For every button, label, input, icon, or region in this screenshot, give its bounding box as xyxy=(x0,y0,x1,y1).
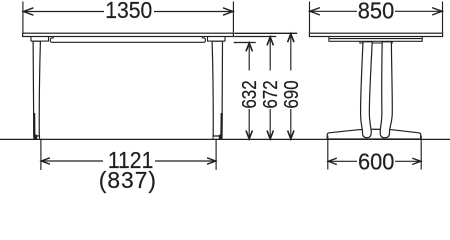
svg-text:1350: 1350 xyxy=(105,0,152,23)
svg-text:632: 632 xyxy=(238,80,261,108)
svg-text:850: 850 xyxy=(358,0,394,24)
svg-text:600: 600 xyxy=(358,148,394,175)
svg-text:672: 672 xyxy=(259,80,282,108)
svg-text:690: 690 xyxy=(279,80,302,108)
svg-text:(837): (837) xyxy=(99,167,157,193)
